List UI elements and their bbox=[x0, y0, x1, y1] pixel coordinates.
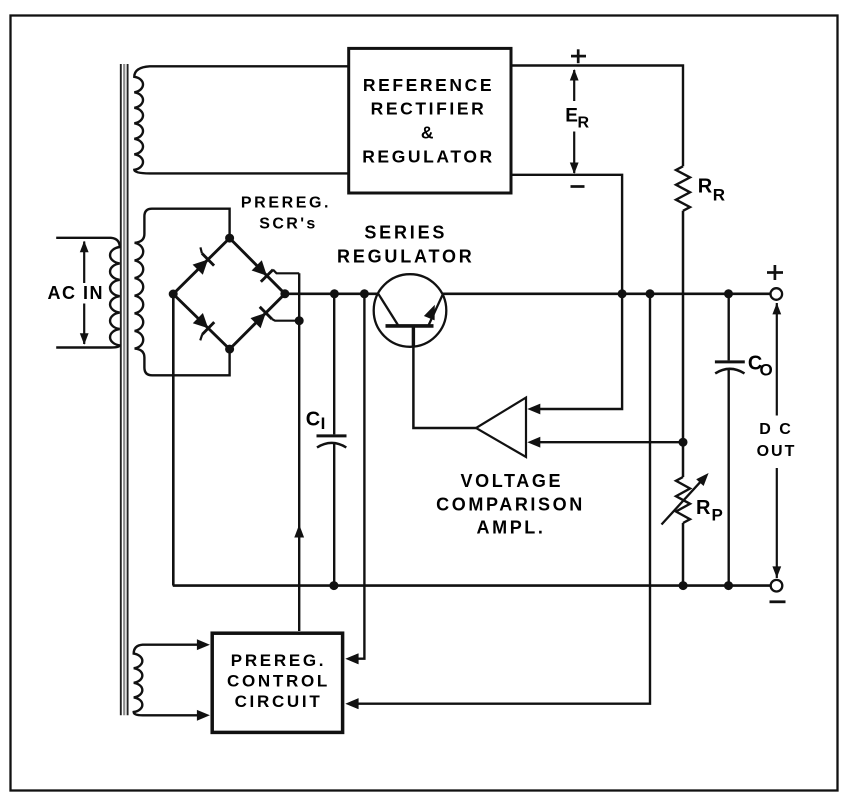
svg-text:OUT: OUT bbox=[757, 443, 797, 460]
svg-text:REGULATOR: REGULATOR bbox=[337, 247, 475, 267]
svg-text:RECTIFIER: RECTIFIER bbox=[371, 99, 487, 119]
svg-text:C: C bbox=[306, 408, 320, 430]
svg-text:O: O bbox=[760, 361, 773, 380]
svg-text:E: E bbox=[565, 106, 578, 127]
svg-text:R: R bbox=[578, 115, 590, 132]
svg-text:SCR's: SCR's bbox=[259, 216, 317, 233]
svg-text:PREREG.: PREREG. bbox=[231, 651, 326, 670]
svg-text:&: & bbox=[421, 122, 436, 142]
svg-text:REFERENCE: REFERENCE bbox=[363, 75, 494, 95]
svg-text:R: R bbox=[698, 176, 713, 198]
svg-text:CIRCUIT: CIRCUIT bbox=[235, 692, 323, 711]
svg-text:VOLTAGE: VOLTAGE bbox=[461, 471, 564, 491]
svg-text:REGULATOR: REGULATOR bbox=[362, 146, 495, 166]
svg-text:AMPL.: AMPL. bbox=[477, 518, 546, 538]
svg-text:I: I bbox=[321, 414, 326, 433]
svg-text:PREREG.: PREREG. bbox=[241, 194, 331, 211]
svg-text:COMPARISON: COMPARISON bbox=[436, 494, 585, 514]
svg-text:D C: D C bbox=[759, 421, 793, 438]
svg-text:AC IN: AC IN bbox=[48, 283, 105, 303]
svg-text:R: R bbox=[696, 497, 711, 519]
svg-text:CONTROL: CONTROL bbox=[227, 671, 330, 690]
svg-text:SERIES: SERIES bbox=[364, 223, 447, 243]
svg-text:R: R bbox=[713, 185, 725, 204]
svg-text:P: P bbox=[712, 506, 723, 525]
